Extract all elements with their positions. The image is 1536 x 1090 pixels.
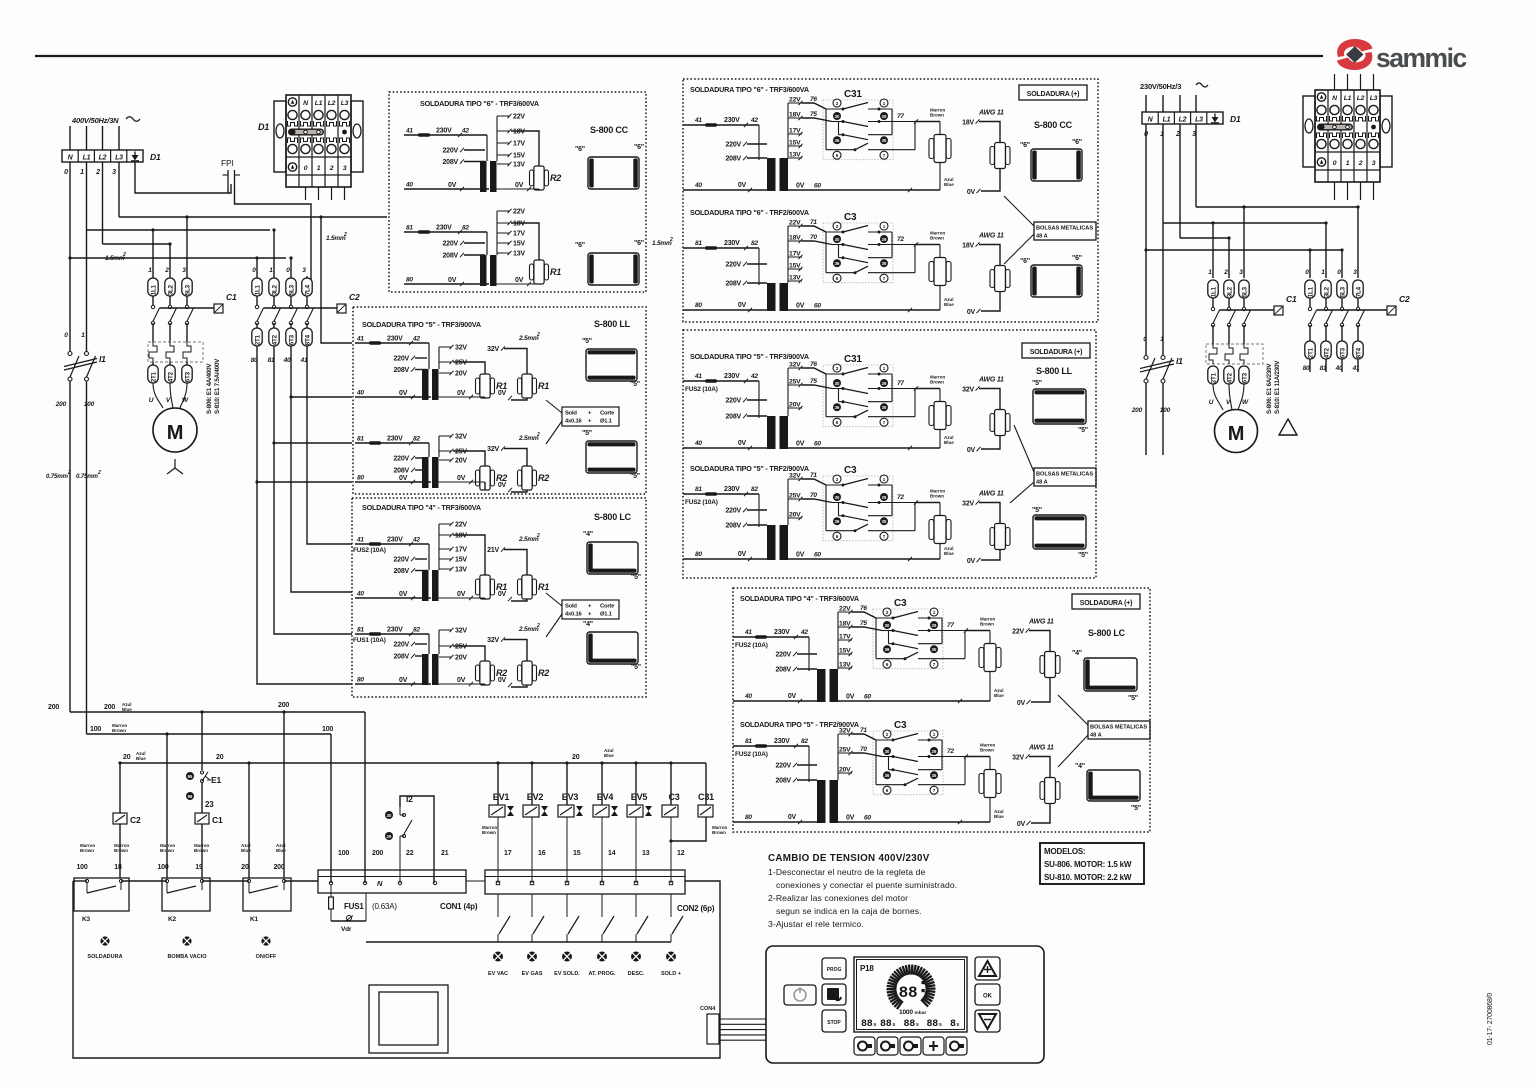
wire K bus	[73, 880, 87, 882]
relay blades	[893, 734, 918, 741]
svg-text:48 A: 48 A	[1036, 234, 1048, 240]
svg-text:Blue: Blue	[944, 302, 954, 307]
svg-text:20V: 20V	[839, 767, 851, 774]
wire 208V tap	[415, 369, 427, 371]
svg-text:220V: 220V	[725, 508, 741, 515]
svg-text:7: 7	[933, 662, 936, 667]
wire FPI left down to earth line	[227, 186, 229, 193]
svg-text:18V: 18V	[513, 129, 525, 136]
svg-text:72: 72	[897, 236, 904, 243]
svg-text:"5": "5"	[582, 338, 592, 345]
svg-text:6: 6	[836, 276, 839, 281]
terminal block D1 detail 400V	[286, 95, 351, 187]
svg-text:22V: 22V	[789, 97, 801, 104]
svg-text:3L2: 3L2	[168, 284, 175, 295]
svg-text:100: 100	[157, 864, 168, 871]
svg-text:2: 2	[1358, 160, 1363, 167]
svg-text:4x0.16: 4x0.16	[565, 419, 583, 425]
transformer core	[817, 669, 826, 702]
svg-text:22V: 22V	[513, 209, 525, 216]
svg-text:220V: 220V	[442, 241, 458, 248]
contactor C1 terminals 2T1 4T2 6T3	[152, 362, 154, 365]
svg-text:Brown: Brown	[930, 113, 944, 118]
TRF box right S-800 LC dashed	[733, 588, 1150, 832]
svg-text:32V: 32V	[455, 345, 467, 352]
secondary taps	[438, 630, 440, 654]
pointer lines to table 2	[546, 593, 562, 606]
svg-text:2: 2	[536, 623, 540, 629]
secondary 0V	[438, 396, 485, 398]
svg-text:208V: 208V	[393, 654, 409, 661]
svg-text:32V: 32V	[487, 346, 499, 353]
svg-text:"5": "5"	[1131, 805, 1141, 812]
svg-text:208V: 208V	[393, 367, 409, 374]
svg-text:"4": "4"	[1075, 763, 1085, 770]
svg-text:2: 2	[836, 101, 839, 106]
svg-text:Brown: Brown	[712, 830, 726, 835]
svg-text:220V: 220V	[725, 262, 741, 269]
contactor C2 poles	[255, 305, 258, 308]
fuse FUS1	[330, 885, 332, 897]
wire supply drops	[69, 126, 71, 150]
wire K1 200 drop	[282, 710, 285, 713]
svg-text:40: 40	[356, 390, 364, 397]
secondary taps	[438, 347, 440, 369]
svg-text:2: 2	[536, 432, 540, 438]
svg-text:s: s	[957, 1022, 960, 1028]
svg-text:R1: R1	[538, 582, 549, 592]
button power	[784, 985, 816, 1005]
svg-text:70: 70	[810, 234, 817, 241]
secondary taps	[787, 479, 789, 525]
svg-text:81: 81	[695, 486, 702, 493]
wire N horizontal	[70, 257, 286, 259]
svg-text:76: 76	[810, 96, 817, 103]
display	[854, 957, 967, 1032]
svg-text:FUS2 (10A): FUS2 (10A)	[685, 499, 718, 506]
svg-text:71: 71	[810, 219, 817, 226]
svg-text:7: 7	[883, 153, 886, 158]
wire L2 drop 230V	[1179, 124, 1181, 238]
svg-text:AWG 11: AWG 11	[978, 233, 1004, 240]
lamp on/off	[261, 936, 270, 945]
control panel	[766, 946, 1044, 1063]
svg-text:0V: 0V	[796, 441, 805, 448]
svg-text:220V: 220V	[393, 356, 409, 363]
svg-text:Brown: Brown	[194, 848, 208, 853]
svg-text:Brown: Brown	[980, 622, 994, 627]
relay internal wires	[875, 740, 877, 785]
svg-text:7L4: 7L4	[305, 284, 312, 295]
contactor C1 coil mark	[214, 304, 223, 313]
svg-text:40: 40	[1335, 365, 1343, 372]
svg-text:0.75mm: 0.75mm	[46, 473, 69, 480]
svg-text:36: 36	[835, 519, 840, 524]
svg-text:R2: R2	[538, 668, 549, 678]
svg-text:1L1: 1L1	[255, 284, 262, 295]
contactor C1 230V coil mark	[1274, 306, 1283, 315]
svg-text:PROG: PROG	[827, 967, 842, 973]
secondary 0V	[496, 188, 539, 190]
wire 72 output	[915, 502, 940, 504]
svg-text:L2: L2	[328, 100, 336, 107]
svg-text:20V: 20V	[455, 458, 467, 465]
svg-text:Blue: Blue	[136, 756, 146, 761]
svg-text:0V: 0V	[738, 440, 747, 447]
wires C1 to overload	[152, 323, 154, 342]
svg-text:0: 0	[1305, 269, 1309, 276]
svg-text:OK: OK	[983, 994, 993, 1000]
svg-text:13V: 13V	[513, 251, 525, 258]
wire L3 drop 230V	[1195, 124, 1197, 207]
svg-text:32V: 32V	[789, 473, 801, 480]
svg-text:"5": "5"	[1078, 552, 1088, 559]
svg-text:C3: C3	[844, 465, 857, 476]
svg-text:15V: 15V	[513, 241, 525, 248]
svg-text:D1: D1	[258, 122, 269, 132]
ribbon cable to panel	[720, 1018, 766, 1020]
svg-text:1: 1	[883, 477, 886, 482]
TRF box right S-800 LL dashed	[683, 330, 1096, 578]
svg-text:36: 36	[835, 405, 840, 410]
svg-text:41: 41	[744, 629, 752, 636]
wire drops to C1	[152, 230, 154, 276]
svg-text:36: 36	[835, 138, 840, 143]
relay blades	[843, 103, 868, 110]
svg-text:0V: 0V	[796, 183, 805, 190]
svg-text:2: 2	[95, 169, 100, 176]
svg-text:36: 36	[885, 773, 890, 778]
svg-text:88: 88	[899, 984, 918, 1002]
svg-text:0V: 0V	[498, 390, 507, 397]
svg-text:0: 0	[64, 169, 68, 176]
svg-text:20: 20	[241, 864, 249, 871]
wire C2 tie bar	[264, 307, 338, 309]
wire 220V tap	[464, 149, 485, 151]
svg-text:"4": "4"	[1072, 650, 1082, 657]
secondary 0V 60	[838, 821, 990, 823]
svg-text:s: s	[893, 1022, 896, 1028]
svg-text:0V: 0V	[967, 189, 976, 196]
svg-text:(0.63A): (0.63A)	[372, 902, 397, 911]
wire 41 feed	[307, 346, 352, 544]
svg-text:22V: 22V	[513, 114, 525, 121]
secondary taps	[496, 116, 498, 161]
terminal strip X1 230V	[1142, 112, 1223, 124]
lamp soldadura	[100, 936, 109, 945]
svg-text:40: 40	[694, 440, 702, 447]
svg-text:6: 6	[836, 534, 839, 539]
wire tap to resistor	[511, 131, 539, 166]
relay input wires	[802, 368, 826, 374]
wire 72 output	[915, 244, 940, 246]
svg-text:5L3: 5L3	[289, 284, 296, 295]
svg-text:D1: D1	[150, 152, 161, 162]
wire 40 feed	[291, 346, 352, 592]
svg-text:1000: 1000	[899, 1009, 913, 1016]
svg-text:88: 88	[880, 1019, 892, 1030]
svg-text:0V: 0V	[515, 182, 524, 189]
wire 200 rail down	[69, 381, 71, 712]
svg-text:42: 42	[412, 336, 420, 343]
svg-text:20V: 20V	[455, 371, 467, 378]
svg-text:82: 82	[801, 738, 808, 745]
svg-text:8T4: 8T4	[305, 334, 312, 345]
svg-text:40: 40	[694, 182, 702, 189]
svg-text:6: 6	[886, 788, 889, 793]
pointer lines to table	[546, 400, 562, 413]
svg-text:L1: L1	[1344, 95, 1352, 102]
link CON1 CON2	[466, 880, 485, 882]
svg-text:Brown: Brown	[114, 848, 128, 853]
svg-text:0V: 0V	[457, 475, 466, 482]
resistor ballast	[939, 245, 941, 258]
svg-text:EV3: EV3	[562, 792, 579, 802]
svg-text:20: 20	[572, 754, 580, 761]
secondary 0V	[496, 283, 539, 285]
svg-text:200: 200	[55, 401, 67, 408]
svg-text:18: 18	[114, 864, 122, 871]
contactor C2 coil mark	[337, 304, 346, 313]
resistor ballast	[939, 122, 941, 135]
svg-text:20: 20	[216, 754, 224, 761]
svg-text:2: 2	[836, 366, 839, 371]
svg-text:C3: C3	[894, 598, 907, 609]
wire grid L2 230V	[1180, 237, 1229, 239]
svg-text:12: 12	[677, 850, 685, 857]
svg-text:220V: 220V	[725, 398, 741, 405]
svg-text:7: 7	[883, 276, 886, 281]
svg-text:K3: K3	[82, 916, 90, 923]
svg-text:29: 29	[882, 114, 887, 119]
svg-text:0V: 0V	[498, 591, 507, 598]
svg-text:72: 72	[947, 748, 954, 755]
svg-text:S-800 LL: S-800 LL	[1036, 366, 1073, 376]
transformer core	[486, 135, 488, 161]
contactor C2 230V terminals	[1305, 280, 1315, 298]
svg-text:60: 60	[814, 303, 821, 310]
svg-text:EV1: EV1	[493, 792, 510, 802]
pointer lines bolsas C	[1058, 695, 1088, 725]
svg-text:15V: 15V	[455, 557, 467, 564]
relay input wires	[802, 226, 826, 232]
svg-text:2: 2	[164, 267, 169, 274]
svg-text:4T2: 4T2	[1324, 347, 1331, 358]
wire drop 200 to CON1	[364, 712, 366, 883]
svg-text:13V: 13V	[513, 162, 525, 169]
svg-text:S-806: E1 4A/400V: S-806: E1 4A/400V	[206, 363, 213, 414]
svg-text:2: 2	[836, 477, 839, 482]
svg-text:0: 0	[304, 165, 308, 172]
svg-text:FUS2 (10A): FUS2 (10A)	[685, 386, 718, 393]
svg-text:EV4: EV4	[597, 792, 614, 802]
svg-text:0V: 0V	[399, 677, 408, 684]
svg-text:STOP: STOP	[827, 1020, 841, 1026]
wire tap to resistor	[511, 223, 539, 260]
svg-text:AWG 11: AWG 11	[1028, 619, 1054, 626]
svg-text:K2: K2	[168, 916, 176, 923]
sold corte table 2	[562, 600, 619, 619]
svg-text:Brown: Brown	[930, 236, 944, 241]
svg-text:40: 40	[405, 182, 413, 189]
svg-text:1: 1	[1160, 336, 1164, 343]
terminal block D1 detail 230V	[1315, 90, 1380, 182]
contactor C2 230V terminals 2T1..8T4	[1309, 325, 1311, 341]
svg-text:I1: I1	[1176, 356, 1183, 366]
svg-text:25V: 25V	[455, 449, 467, 456]
wire C1 tie bar	[160, 307, 215, 309]
svg-text:0: 0	[1143, 336, 1147, 343]
relay input wires	[802, 479, 826, 485]
svg-text:SOLDADURA: SOLDADURA	[87, 954, 122, 960]
svg-text:35: 35	[882, 405, 887, 410]
svg-text:42: 42	[800, 629, 808, 636]
svg-text:SOLDADURA TIPO "4" - TRF3/600V: SOLDADURA TIPO "4" - TRF3/600VA	[362, 503, 481, 512]
svg-text:"6": "6"	[575, 146, 585, 153]
earth arrow in strip	[134, 152, 136, 159]
svg-text:29: 29	[882, 381, 887, 386]
svg-text:14: 14	[608, 850, 616, 857]
resistor ballast	[989, 757, 991, 770]
svg-text:"5": "5"	[631, 574, 641, 581]
svg-text:208V: 208V	[393, 568, 409, 575]
svg-text:segun se indica en la caja de: segun se indica en la caja de bornes.	[776, 906, 922, 916]
svg-text:1: 1	[269, 267, 273, 274]
svg-text:2.5mm: 2.5mm	[518, 626, 539, 633]
wire 80 feed to TRF boxes	[257, 346, 352, 684]
svg-text:CON1 (4p): CON1 (4p)	[440, 902, 478, 911]
svg-text:35: 35	[932, 647, 937, 652]
svg-text:D1: D1	[1230, 114, 1241, 124]
secondary 0V 60	[788, 447, 940, 449]
wire grid L3 horizontal	[119, 216, 387, 218]
svg-text:"6": "6"	[575, 242, 585, 249]
svg-text:conexiones y conectar el puent: conexiones y conectar el puente suminist…	[776, 880, 957, 890]
motor M 400V	[153, 408, 197, 452]
svg-text:32V: 32V	[455, 434, 467, 441]
svg-text:1: 1	[933, 732, 936, 737]
svg-text:01-17- 2700868/0: 01-17- 2700868/0	[1487, 993, 1494, 1045]
relay input wires	[802, 103, 826, 109]
relay output wires	[918, 617, 942, 619]
svg-text:77: 77	[897, 380, 904, 387]
svg-text:2: 2	[886, 732, 889, 737]
wire L2 drop	[102, 162, 104, 244]
svg-text:30: 30	[835, 381, 840, 386]
svg-text:2: 2	[536, 332, 540, 338]
svg-text:1: 1	[933, 610, 936, 615]
svg-text:2T1: 2T1	[255, 334, 262, 345]
relay pins	[833, 475, 841, 483]
svg-text:41: 41	[356, 537, 364, 544]
svg-text:21V: 21V	[487, 547, 499, 554]
svg-text:3: 3	[1353, 269, 1357, 276]
svg-text:0V: 0V	[788, 693, 797, 700]
wires to motor	[153, 383, 187, 408]
svg-text:0V: 0V	[399, 475, 408, 482]
svg-text:13V: 13V	[455, 567, 467, 574]
svg-text:2.5mm: 2.5mm	[518, 435, 539, 442]
svg-text:7: 7	[883, 420, 886, 425]
svg-text:81: 81	[1320, 365, 1327, 372]
relay pins	[833, 222, 841, 230]
relay pins	[833, 364, 841, 372]
svg-text:"5": "5"	[1078, 427, 1088, 434]
svg-text:15V: 15V	[513, 153, 525, 160]
svg-text:S-806: E1 6A/230V: S-806: E1 6A/230V	[1266, 363, 1273, 414]
svg-text:FUS1: FUS1	[344, 902, 364, 911]
wire 220V tap	[415, 558, 427, 560]
svg-text:Brown: Brown	[160, 848, 174, 853]
svg-text:13V: 13V	[839, 662, 851, 669]
box modelos	[1040, 843, 1144, 884]
svg-text:3L2: 3L2	[1227, 286, 1234, 297]
connector CON1	[318, 870, 466, 893]
svg-text:32V: 32V	[487, 446, 499, 453]
svg-text:13V: 13V	[789, 275, 801, 282]
svg-text:71: 71	[860, 727, 867, 734]
delta connection symbol	[1279, 419, 1297, 435]
svg-text:2-Realizar las conexiones del: 2-Realizar las conexiones del motor	[768, 893, 908, 903]
svg-text:s: s	[939, 1022, 942, 1028]
transformer core	[428, 343, 430, 369]
svg-text:208V: 208V	[442, 159, 458, 166]
svg-text:S-810: E1 11A/230V: S-810: E1 11A/230V	[1274, 360, 1281, 414]
window rectangle	[369, 985, 448, 1053]
svg-text:1: 1	[883, 366, 886, 371]
svg-text:29: 29	[932, 623, 937, 628]
svg-text:s: s	[874, 1022, 877, 1028]
svg-text:80: 80	[745, 814, 752, 821]
wire supply drops 230V	[1145, 95, 1147, 112]
svg-text:32V: 32V	[455, 628, 467, 635]
coil C2 chain	[118, 761, 121, 764]
svg-text:FPI: FPI	[221, 158, 234, 168]
motor M 230V	[1215, 410, 1258, 453]
svg-text:230V: 230V	[436, 225, 452, 232]
svg-text:"5": "5"	[1128, 695, 1138, 702]
svg-text:2: 2	[836, 224, 839, 229]
svg-text:3-Ajustar el rele termico.: 3-Ajustar el rele termico.	[768, 919, 864, 929]
secondary 0V	[438, 597, 485, 599]
wire drops to C1 230V	[1212, 223, 1214, 278]
svg-text:0V: 0V	[515, 277, 524, 284]
svg-text:U: U	[1209, 399, 1214, 406]
svg-text:17: 17	[504, 850, 512, 857]
svg-text:Sold: Sold	[565, 604, 577, 610]
wire tap to resistor	[453, 362, 485, 374]
svg-text:2: 2	[886, 610, 889, 615]
svg-text:230V/50Hz/3: 230V/50Hz/3	[1140, 82, 1181, 91]
svg-text:3: 3	[302, 267, 306, 274]
svg-text:L1: L1	[1163, 117, 1171, 124]
svg-text:15V: 15V	[839, 648, 851, 655]
wire 77 output	[915, 121, 940, 123]
svg-text:C2: C2	[130, 815, 141, 825]
svg-text:Brown: Brown	[80, 848, 94, 853]
svg-text:EV GAS: EV GAS	[522, 971, 543, 977]
svg-text:0V: 0V	[738, 302, 747, 309]
svg-text:70: 70	[860, 746, 867, 753]
svg-text:22V: 22V	[1012, 629, 1024, 636]
svg-text:3: 3	[182, 267, 186, 274]
resistor R1	[534, 260, 544, 284]
secondary taps	[496, 211, 498, 255]
EV coil symbols	[489, 805, 505, 817]
svg-text:L1: L1	[83, 155, 91, 162]
svg-text:"5": "5"	[631, 664, 641, 671]
svg-text:220V: 220V	[393, 642, 409, 649]
